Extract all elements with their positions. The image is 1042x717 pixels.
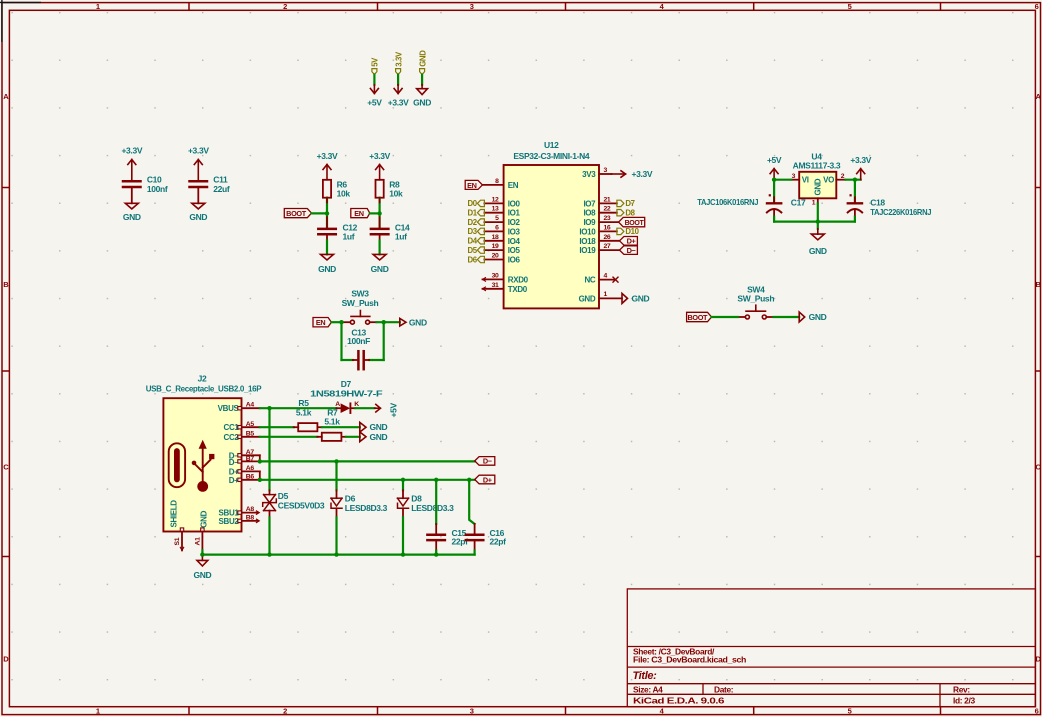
svg-text:D1: D1: [468, 209, 478, 218]
hierarchical labels D0-D6: [468, 199, 485, 264]
svg-text:KiCad E.D.A. 9.0.6: KiCad E.D.A. 9.0.6: [633, 696, 725, 706]
wire D+ to D8: [402, 480, 404, 491]
power symbol GND right of SW3: [400, 318, 406, 326]
svg-text:22pf: 22pf: [452, 537, 469, 547]
J2 pin SHIELD stub: [174, 532, 184, 551]
svg-text:3V3: 3V3: [582, 170, 596, 179]
power symbol +3.3V at U4: [857, 169, 865, 180]
J2 pin end decorations (dangling arrows SBU1 SBU2): [256, 511, 259, 523]
power symbol +3.3V right of U12 (right arrow): [612, 171, 626, 177]
svg-text:J2: J2: [198, 374, 207, 384]
power symbol GND right of R7: [360, 432, 366, 442]
svg-text:+3.3V: +3.3V: [121, 145, 142, 155]
svg-text:TXD0: TXD0: [508, 285, 528, 294]
svg-text:D10: D10: [625, 227, 639, 236]
svg-text:10k: 10k: [337, 189, 351, 199]
wire R6 to junction: [326, 198, 328, 214]
power symbol GND at C10: [125, 203, 138, 209]
capacitor C18 polarized: [848, 180, 862, 222]
svg-text:6: 6: [495, 224, 499, 231]
svg-text:5.1k: 5.1k: [324, 417, 340, 427]
capacitor C13 100nF: [342, 328, 384, 370]
power symbol +5V at U4: [770, 169, 778, 180]
junction +5V/C17: [772, 178, 776, 182]
svg-text:VI: VI: [802, 176, 809, 185]
svg-text:D8: D8: [411, 493, 422, 503]
J2 pin numbers: [246, 402, 255, 522]
global label D- (USB net): [475, 457, 495, 466]
junction +3.3V/C18: [853, 178, 857, 182]
wire R8 to junction: [379, 198, 381, 214]
junction GND bus D8: [401, 552, 405, 556]
svg-text:GND: GND: [371, 264, 389, 274]
U12 pin EN lead: [482, 184, 503, 186]
power symbol +3.3V (down arrow): [394, 85, 402, 94]
svg-text:IO18: IO18: [579, 237, 596, 246]
svg-text:D5: D5: [278, 491, 289, 501]
svg-text:BOOT: BOOT: [687, 313, 708, 322]
wire CC1 to R5: [260, 426, 294, 428]
svg-text:5: 5: [495, 215, 499, 222]
svg-text:3: 3: [470, 706, 474, 715]
svg-text:1uf: 1uf: [395, 231, 407, 241]
svg-text:BOOT: BOOT: [286, 209, 307, 218]
global label EN at SW3: [313, 318, 331, 327]
junction SW3 right: [382, 320, 386, 324]
svg-text:100nF: 100nF: [347, 336, 370, 346]
svg-text:22pf: 22pf: [490, 537, 507, 547]
svg-text:D6: D6: [468, 255, 478, 264]
svg-text:IO0: IO0: [508, 199, 521, 208]
junction U4 GND: [816, 219, 820, 223]
switch SW4 SW_Push: [737, 285, 774, 319]
power symbol GND right of SW4: [799, 312, 805, 322]
svg-text:ESP32-C3-MINI-1-N4: ESP32-C3-MINI-1-N4: [513, 151, 590, 161]
junction GND bus D5: [267, 552, 271, 556]
svg-text:10k: 10k: [389, 189, 403, 199]
svg-text:8: 8: [495, 178, 499, 185]
svg-text:21: 21: [604, 196, 611, 203]
svg-text:D−: D−: [483, 457, 492, 466]
svg-text:USB_C_Receptacle_USB2.0_16P: USB_C_Receptacle_USB2.0_16P: [146, 384, 263, 393]
capacitor C11 22uf: [190, 181, 208, 187]
junction D+ bracket: [258, 478, 262, 482]
svg-text:IO2: IO2: [508, 218, 521, 227]
svg-text:2: 2: [283, 706, 287, 715]
svg-text:5V: 5V: [371, 57, 380, 67]
wire C12 to GND: [326, 234, 328, 254]
hierarchical label D7: [617, 199, 635, 208]
power symbol GND right of R5: [360, 422, 366, 432]
svg-text:GND: GND: [189, 212, 207, 222]
svg-text:SW_Push: SW_Push: [342, 298, 379, 308]
wire D8 to GND bus: [402, 517, 404, 554]
svg-text:EN: EN: [316, 318, 326, 327]
diode D7 1N5819HW-7-F: [310, 379, 382, 413]
svg-text:GND: GND: [814, 178, 823, 195]
svg-text:GND: GND: [418, 50, 427, 67]
global label D+ at U12: [620, 237, 638, 246]
capacitor C15 22pf: [427, 524, 468, 551]
junction D-/D6: [334, 459, 338, 463]
global label BOOT at SW4: [687, 312, 712, 321]
J2 right pin names: [218, 404, 240, 526]
svg-text:D5: D5: [468, 246, 478, 255]
svg-text:GND: GND: [193, 570, 211, 580]
power symbol GND at U4: [811, 229, 824, 240]
svg-text:AMS1117-3.3: AMS1117-3.3: [793, 161, 841, 171]
TVS diode D5 CESD5V0D3: [263, 490, 325, 517]
IC U4 AMS1117-3.3: [793, 151, 841, 198]
svg-text:D8: D8: [625, 209, 635, 218]
svg-text:EN: EN: [508, 181, 519, 190]
svg-text:D0: D0: [468, 199, 478, 208]
svg-text:27: 27: [604, 243, 611, 250]
U12 right pin numbers: [604, 167, 611, 298]
power symbol GND at C12: [321, 254, 334, 260]
svg-text:D+: D+: [627, 237, 636, 246]
U12 pin GND lead: [599, 297, 622, 299]
junction GND bus C15: [434, 552, 438, 556]
resistor R5 body: [294, 423, 322, 431]
svg-text:D+: D+: [483, 475, 492, 484]
svg-text:19: 19: [492, 243, 499, 250]
wire D+ to C15: [435, 480, 437, 524]
U12 right pin names: [579, 170, 597, 303]
capacitor C12 1uf: [326, 213, 328, 228]
junction VBUS/D5: [267, 406, 271, 410]
svg-text:IO6: IO6: [508, 256, 521, 265]
wire C15 to GND bus: [435, 551, 437, 555]
U12 pin IO18 lead: [599, 240, 620, 242]
wire U4 pin1 to bus: [817, 204, 819, 229]
svg-text:IO19: IO19: [579, 246, 596, 255]
svg-text:VO: VO: [823, 176, 834, 185]
svg-text:1: 1: [96, 706, 100, 715]
wire R7 to GND: [346, 436, 360, 438]
global label D+ (USB net): [475, 475, 495, 484]
power symbol +3.3V at R6: [323, 165, 331, 180]
svg-text:D7: D7: [625, 199, 634, 208]
wire BOOT to SW4: [712, 316, 739, 318]
power symbol GND at C11: [192, 203, 205, 209]
U12 pins IO7 IO8 IO10 leads: [599, 203, 617, 231]
IC U12 ESP32-C3-MINI-1-N4: [504, 140, 599, 308]
hierarchical label D10: [617, 227, 640, 236]
svg-text:6: 6: [1035, 2, 1039, 11]
svg-text:Date:: Date:: [714, 685, 733, 695]
power symbol +3.3V at C11: [194, 160, 202, 181]
svg-text:100nf: 100nf: [147, 184, 168, 194]
svg-text:Rev:: Rev:: [953, 685, 970, 695]
wire U4 ground bus: [774, 221, 855, 223]
wire U4 VO to +3.3V: [846, 179, 861, 181]
svg-text:20: 20: [492, 253, 499, 260]
svg-text:GND: GND: [413, 98, 431, 108]
U12 pin IO9 lead: [599, 221, 619, 223]
svg-text:GND: GND: [318, 264, 336, 274]
svg-text:K: K: [354, 401, 359, 408]
wire +5V to U4 VI: [774, 179, 791, 181]
power symbol +5V (down arrow): [370, 85, 378, 94]
svg-text:12: 12: [492, 196, 499, 203]
svg-text:13: 13: [492, 206, 499, 213]
svg-text:S1: S1: [174, 537, 181, 545]
capacitor C10 100nf: [123, 181, 141, 187]
wire D- net: [260, 460, 475, 462]
resistor R6 10k: [323, 180, 331, 198]
svg-text:3: 3: [470, 2, 474, 11]
svg-text:IO1: IO1: [508, 209, 521, 218]
junction D+/D8: [401, 478, 405, 482]
svg-text:RXD0: RXD0: [508, 275, 529, 284]
wire C14 to GND: [379, 234, 381, 254]
wire EN to SW3: [331, 321, 341, 323]
wire A1 to GND bus: [201, 550, 203, 554]
resistor R7 body: [317, 433, 346, 441]
svg-text:Id: 2/3: Id: 2/3: [953, 696, 975, 706]
svg-text:22uf: 22uf: [213, 184, 230, 194]
wire VBUS net: [260, 407, 337, 409]
svg-text:GND: GND: [199, 510, 208, 527]
svg-text:1: 1: [812, 199, 816, 206]
svg-text:GND: GND: [123, 212, 141, 222]
svg-text:6: 6: [1035, 706, 1039, 715]
switch SW3 SW_Push: [342, 289, 379, 325]
junction D- bracket: [258, 459, 262, 463]
svg-text:26: 26: [604, 234, 611, 241]
U12 pin IO19 lead: [599, 249, 620, 251]
svg-text:VBUS: VBUS: [218, 404, 240, 413]
power symbol +5V right of D7: [375, 404, 381, 412]
wire D7 to +5V: [355, 407, 374, 409]
svg-text:LESD8D3.3: LESD8D3.3: [345, 503, 388, 513]
svg-text:GND: GND: [409, 317, 427, 327]
junction GND bus D6: [334, 552, 338, 556]
capacitor C16 22pf: [466, 524, 506, 551]
U4 pin 3 lead: [791, 179, 799, 181]
svg-text:U12: U12: [544, 140, 559, 150]
svg-text:IO3: IO3: [508, 227, 521, 236]
wire CC2 to R7: [260, 436, 318, 438]
wire GND label to GND port: [421, 75, 423, 85]
U12 pin 3V3 lead: [599, 173, 612, 175]
svg-text:NC: NC: [584, 275, 595, 284]
junction D+/C16: [467, 478, 471, 482]
U12 left pin names: [508, 181, 529, 294]
svg-text:D2: D2: [468, 218, 478, 227]
svg-text:2: 2: [841, 173, 845, 180]
svg-text:GND: GND: [370, 422, 388, 432]
svg-text:IO5: IO5: [508, 246, 521, 255]
svg-text:D4: D4: [468, 237, 478, 246]
svg-text:CESD5V0D3: CESD5V0D3: [278, 500, 325, 510]
svg-text:1uf: 1uf: [343, 231, 355, 241]
hierarchical label GND (top power input): [418, 50, 427, 75]
wire D6 to GND bus: [335, 517, 337, 554]
svg-text:CC1: CC1: [224, 423, 240, 432]
svg-text:TAJC106K016RNJ: TAJC106K016RNJ: [697, 197, 759, 207]
global label EN at U12: [465, 180, 482, 189]
svg-text:+5V: +5V: [389, 403, 399, 418]
svg-text:1N5819HW-7-F: 1N5819HW-7-F: [310, 389, 382, 399]
svg-text:SW_Push: SW_Push: [737, 294, 774, 304]
wire D5 to GND bus: [268, 517, 270, 554]
junction SW3 left: [339, 320, 343, 324]
resistor R8 10k: [376, 180, 384, 198]
wire GND bus: [202, 553, 474, 555]
svg-text:IO10: IO10: [579, 227, 596, 236]
wire R5 to GND: [322, 426, 360, 428]
power symbol GND right of U12: [622, 293, 628, 303]
svg-text:+3.3V: +3.3V: [632, 169, 653, 179]
wire EN label to junction: [370, 212, 380, 214]
wire bracket D+ pins A6 B6: [259, 471, 261, 479]
junction R6/C12: [325, 211, 329, 215]
svg-text:5: 5: [848, 706, 852, 715]
J2 USB-C receptacle glyph: [169, 443, 185, 487]
junction R8/C14: [377, 211, 381, 215]
capacitor C17 polarized: [767, 180, 781, 222]
hierarchical label D8: [617, 209, 636, 218]
U12 pin NC lead with no-connect x: [599, 277, 618, 282]
U12 left pin numbers: [492, 178, 499, 289]
U12 pins IO0-IO6 leads: [484, 203, 503, 259]
svg-text:D6: D6: [345, 493, 356, 503]
svg-text:SBU2: SBU2: [219, 517, 240, 526]
wire bracket D- pins A7 B7: [259, 455, 261, 461]
wire C16 to GND bus: [474, 551, 476, 555]
svg-text:1: 1: [96, 2, 100, 11]
capacitor C14 1uf: [379, 213, 381, 228]
svg-text:+3.3V: +3.3V: [850, 155, 871, 165]
svg-text:18: 18: [492, 234, 499, 241]
svg-text:C17: C17: [791, 198, 806, 208]
svg-text:3: 3: [604, 167, 608, 174]
TVS diode D8 LESD8D3.3: [398, 490, 455, 517]
power symbol +3.3V at R8: [376, 165, 384, 180]
svg-text:Title:: Title:: [633, 670, 658, 682]
svg-text:EN: EN: [467, 181, 477, 190]
svg-text:+5V: +5V: [767, 155, 782, 165]
J2 pin stubs right: [242, 408, 260, 521]
svg-text:GND: GND: [809, 246, 827, 256]
svg-text:+3.3V: +3.3V: [188, 145, 209, 155]
wire SW4 to GND: [774, 316, 800, 318]
svg-text:CC2: CC2: [224, 433, 240, 442]
svg-text:LESD8D3.3: LESD8D3.3: [411, 503, 454, 513]
U4 pin 2 lead: [836, 179, 845, 181]
svg-text:D−: D−: [627, 246, 636, 255]
U12 pins RXD0 TXD0 leads (dangling): [483, 278, 504, 291]
hierarchical label 5V (top power input): [371, 57, 380, 75]
svg-text:+3.3V: +3.3V: [369, 151, 390, 161]
svg-text:D3: D3: [468, 227, 478, 236]
svg-text:Size: A4: Size: A4: [633, 685, 663, 695]
svg-text:File: C3_DevBoard.kicad_sch: File: C3_DevBoard.kicad_sch: [633, 655, 746, 665]
svg-text:+5V: +5V: [367, 98, 382, 108]
svg-text:TAJC226K016RNJ: TAJC226K016RNJ: [870, 207, 932, 217]
svg-text:IO8: IO8: [583, 209, 596, 218]
svg-text:GND: GND: [579, 294, 596, 303]
svg-text:31: 31: [492, 282, 499, 289]
TITLE BLOCK: [627, 589, 1035, 707]
svg-text:IO7: IO7: [583, 199, 596, 208]
svg-text:GND: GND: [809, 312, 827, 322]
svg-text:EN: EN: [354, 209, 364, 218]
wire C13 parallel left: [340, 322, 342, 360]
svg-text:GND: GND: [632, 293, 650, 303]
svg-text:22: 22: [604, 206, 611, 213]
svg-text:+3.3V: +3.3V: [388, 98, 409, 108]
wire SW3 to GND label: [377, 321, 400, 323]
global label EN at R8: [351, 209, 370, 218]
svg-text:4: 4: [604, 272, 608, 279]
TVS diode D6 LESD8D3.3: [331, 490, 388, 517]
svg-text:16: 16: [604, 224, 611, 231]
J2 pin GND A1 stub: [195, 532, 203, 551]
wire 3.3V label to +3.3V port: [397, 75, 399, 85]
global label BOOT at R6: [284, 209, 311, 218]
wire D+ net: [260, 479, 475, 481]
J2 pin base squares: [180, 407, 241, 532]
power symbol GND (open triangle): [417, 85, 428, 95]
svg-text:IO4: IO4: [508, 237, 521, 246]
wire VBUS to D5: [268, 408, 270, 490]
svg-text:GND: GND: [370, 432, 388, 442]
wire BOOT label to junction: [312, 212, 328, 214]
U4 pin 1 lead: [817, 198, 819, 203]
svg-text:R5: R5: [298, 398, 309, 408]
power symbol GND at C14: [373, 254, 386, 260]
svg-text:2: 2: [283, 2, 287, 11]
wire D+ to C16 (with jog): [469, 480, 474, 524]
junction GND bus A1: [200, 552, 204, 556]
svg-text:5.1k: 5.1k: [296, 407, 312, 417]
svg-text:3.3V: 3.3V: [394, 51, 403, 67]
svg-text:SHIELD: SHIELD: [170, 500, 179, 528]
wire 5V label to +5V port: [373, 75, 375, 85]
svg-text:23: 23: [604, 215, 611, 222]
svg-text:+3.3V: +3.3V: [317, 151, 338, 161]
svg-text:IO9: IO9: [583, 218, 596, 227]
connector J2 USB_C_Receptacle_USB2.0_16P: [146, 374, 263, 532]
wire C13 parallel right: [383, 322, 385, 360]
svg-text:30: 30: [492, 272, 499, 279]
wire D- to D6: [335, 461, 337, 490]
power symbol +3.3V at C10: [128, 160, 136, 181]
global label D- at U12: [620, 246, 638, 255]
svg-text:A1: A1: [195, 537, 202, 546]
svg-text:BOOT: BOOT: [625, 220, 645, 227]
global label BOOT at U12: [619, 217, 645, 226]
svg-text:1: 1: [604, 291, 608, 298]
hierarchical label 3.3V (top power input): [394, 51, 403, 74]
J2 USB trident glyph: [192, 440, 215, 492]
junction D+/C15: [434, 478, 438, 482]
svg-text:D7: D7: [341, 379, 352, 389]
power symbol GND below J2: [197, 555, 208, 566]
svg-text:5: 5: [848, 2, 852, 11]
